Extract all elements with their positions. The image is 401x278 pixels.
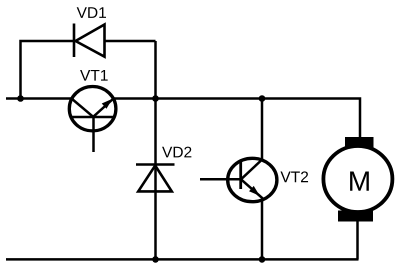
wire: vertical through node A and VD2 down to bottom rail (154, 41, 157, 259)
transistor VT2 emitter lead (down slant) (241, 179, 264, 199)
wire: VT2 emitter vertical to bottom rail (261, 200, 264, 260)
wire: motor bottom lead (356, 221, 359, 259)
transistor VT2 base bar (239, 161, 242, 190)
transistor VT2 emitter arrowhead (250, 187, 259, 195)
label VD2 (162, 147, 191, 158)
junction dot node C (152, 256, 159, 263)
transistor VT1 envelope (69, 87, 116, 131)
wire: bottom rail (6, 258, 359, 261)
diode VD2 cathode bar (136, 163, 175, 166)
diode VD1 triangle (pointing left) (76, 25, 105, 57)
motor M1 top brush (345, 137, 374, 148)
label M (350, 172, 369, 191)
wire: VT2 collector vertical from supply rail (261, 99, 264, 161)
transistor VT1 collector lead (left slant) (72, 99, 94, 117)
motor M1 body (323, 146, 392, 212)
transistor VT1 emitter lead (right slant) (93, 99, 113, 117)
junction dot node A (152, 95, 159, 102)
diode VD2 triangle (pointing up) (138, 166, 172, 192)
junction dot at left riser (17, 95, 24, 102)
junction dot node D (259, 256, 266, 263)
wire: supply rail left segment with input stub (6, 97, 73, 100)
transistor VT1 base bar (71, 116, 114, 119)
wire: top segment from VD1 to node A riser (105, 40, 156, 43)
label VT2 (280, 171, 308, 182)
wire: left riser from supply rail up to top wire (21, 41, 76, 99)
label VD1 (77, 7, 106, 18)
transistor VT1 base lead going down (92, 117, 95, 152)
junction dot node B (259, 95, 266, 102)
motor M1 bottom brush (338, 211, 373, 222)
transistor VT1 emitter arrowhead (102, 100, 111, 109)
transistor VT2 envelope (228, 158, 277, 201)
wire: VT2 base input stub (200, 178, 241, 181)
diode VD1 cathode bar (73, 24, 76, 58)
label VT1 (80, 70, 108, 81)
transistor VT2 collector lead (up slant) (241, 160, 262, 180)
wire: supply rail from VT1 to top-right corner, down to motor (114, 99, 361, 139)
